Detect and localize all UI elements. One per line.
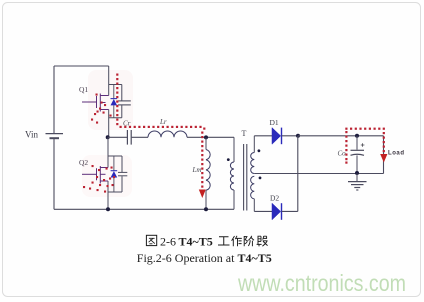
label Co (338, 150, 347, 158)
label Cr (123, 120, 131, 128)
current path dotted: output loop left vertical (345, 131, 347, 164)
node at bottom of Q2 leg (106, 207, 110, 211)
node Co bottom (355, 171, 359, 175)
capacitor Co (351, 136, 365, 174)
current arrow at load (380, 154, 387, 163)
node C (bottom of Lm) (204, 207, 208, 211)
current path dotted: horizontal run above Cr / Lr (120, 126, 206, 130)
transistor Q1 (82, 66, 131, 137)
label Lr (159, 118, 167, 126)
svg-text:Lm: Lm (192, 166, 202, 174)
svg-text:www.cntronics.com: www.cntronics.com (237, 270, 406, 296)
图 (146, 235, 156, 245)
wire secondary bottom to D2 (254, 210, 272, 212)
svg-text:Q2: Q2 (79, 158, 88, 167)
wire output positive rail (298, 135, 384, 137)
current path dotted: stray dots around Q2 (83, 165, 115, 193)
haze around Q1 (artifact) (88, 70, 133, 130)
svg-text:D2: D2 (270, 194, 279, 203)
label Vin (25, 130, 38, 140)
label Q1 (79, 85, 88, 94)
svg-text:D1: D1 (270, 118, 279, 127)
wire D2 up to output node (282, 136, 298, 212)
svg-text:T4~T5: T4~T5 (179, 235, 213, 249)
capacitor Cr (127, 130, 131, 145)
wire left rail upper (53, 66, 55, 133)
diode D2 (272, 203, 282, 220)
wire centre-tap return rail (254, 173, 383, 175)
battery Vin (46, 134, 64, 139)
label Lm (192, 166, 202, 174)
wire bottom rail (54, 208, 234, 210)
svg-text:Load: Load (388, 151, 405, 157)
caption line 1: 图 2-6 T4~T5 工作阶段 (146, 235, 156, 245)
label D1 (270, 118, 279, 127)
node D (rectifier output) (296, 134, 300, 138)
svg-text:Q1: Q1 (79, 85, 88, 94)
current path dotted: stray dots around Q1 (91, 94, 112, 124)
段 (257, 236, 268, 247)
label Load (388, 151, 405, 157)
label T (242, 129, 247, 138)
haze around Q2 (artifact) (82, 155, 132, 197)
secondary polarity dot upper (258, 149, 261, 152)
svg-text:T: T (242, 129, 247, 138)
current path dotted: output loop right vertical (383, 132, 385, 152)
current path dotted: vertical run along Lm (201, 132, 203, 188)
svg-text:Fig.2-6 Operation at T4~T5: Fig.2-6 Operation at T4~T5 (137, 251, 272, 265)
svg-text:Vin: Vin (25, 130, 38, 140)
wire load branch (383, 136, 385, 174)
current arrow at Lm (199, 190, 206, 199)
watermark www.cntronics.com (237, 270, 406, 296)
label Q2 (79, 158, 88, 167)
wire left rail lower (53, 139, 55, 210)
primary polarity dot (227, 158, 230, 161)
node Co top (355, 134, 359, 138)
transformer T primary winding (230, 137, 234, 209)
wire Lr to node B and to transformer (187, 136, 234, 138)
wire D1 to output node (282, 135, 299, 137)
作 (232, 236, 242, 246)
diode D1 (272, 128, 282, 145)
wire node A to Cr (108, 136, 127, 138)
label D2 (270, 194, 279, 203)
svg-text:Co: Co (338, 150, 347, 158)
wire top rail (54, 65, 109, 67)
caption line 2 (137, 251, 272, 265)
secondary polarity dot lower (259, 177, 262, 180)
node A (half-bridge midpoint) (106, 135, 110, 139)
ground (348, 174, 367, 191)
inductor Lm (206, 137, 210, 209)
secondary winding lower (251, 176, 255, 211)
工 (218, 237, 230, 245)
inductor Lr (148, 131, 187, 137)
transformer core (244, 144, 247, 211)
current path dotted: Q1 branch vertical (116, 74, 118, 126)
阶 (244, 236, 254, 246)
wire secondary top to D1 (254, 135, 272, 137)
svg-text:2-6: 2-6 (160, 235, 176, 249)
wire Cr to Lr (132, 136, 148, 138)
svg-text:Lr: Lr (159, 118, 167, 126)
transformer secondary winding upper (251, 136, 255, 174)
current path dotted: output loop top (345, 128, 385, 130)
transistor Q2 (82, 137, 127, 209)
node B (204, 135, 208, 139)
